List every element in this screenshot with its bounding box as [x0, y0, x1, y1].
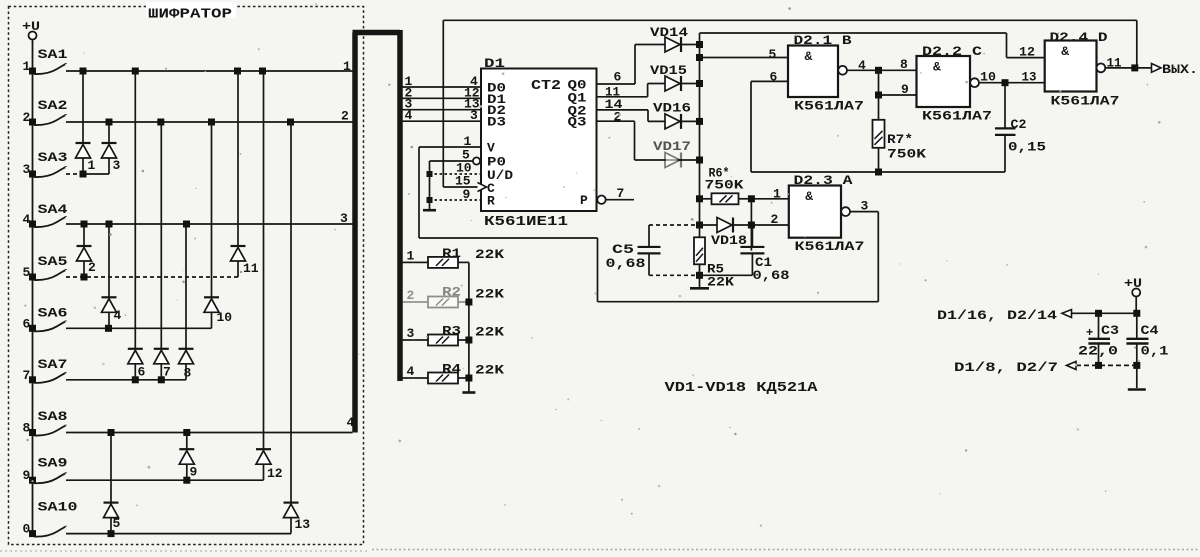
diode 3: [102, 122, 121, 174]
wire row 2 (line 2): [66, 109, 353, 126]
svg-text:22K: 22K: [475, 363, 504, 378]
diode 8: [179, 224, 194, 381]
svg-text:1: 1: [773, 187, 781, 202]
svg-text:1: 1: [88, 158, 96, 173]
+U supply terminal (right): [1124, 276, 1142, 297]
wire Q2 to VD16: [597, 97, 649, 121]
svg-text:1: 1: [23, 59, 31, 74]
svg-text:К561ЛА7: К561ЛА7: [794, 99, 864, 114]
svg-text:9: 9: [23, 468, 31, 483]
svg-text:9: 9: [901, 82, 909, 97]
gate D2.1 output pin 4: [838, 58, 882, 75]
svg-text:R: R: [487, 194, 495, 209]
svg-text:22K: 22K: [707, 275, 734, 290]
svg-text:&: &: [805, 49, 813, 64]
svg-text:6: 6: [138, 365, 146, 380]
svg-text:SA6: SA6: [38, 306, 68, 321]
svg-text:&: &: [805, 189, 813, 204]
svg-text:9: 9: [190, 465, 198, 480]
encoder block dashed border: [9, 2, 364, 545]
svg-text:2: 2: [407, 288, 415, 303]
svg-text:VD1-VD18 КД521А: VD1-VD18 КД521А: [665, 381, 819, 396]
svg-text:6: 6: [614, 70, 622, 85]
wire Q0 to VD14: [597, 45, 636, 85]
resistor R6* 750K: [700, 166, 752, 205]
diode 2: [77, 224, 97, 277]
svg-text:D2.4 D: D2.4 D: [1050, 30, 1108, 45]
pin 10 U/D wire: [427, 161, 482, 178]
pin 2 wire D2.3: [751, 212, 788, 227]
switch SA2: [23, 98, 68, 126]
svg-text:6: 6: [23, 316, 31, 331]
svg-text:6: 6: [770, 70, 778, 85]
wire Q1 to VD15: [597, 84, 648, 100]
svg-text:11: 11: [243, 261, 259, 276]
svg-text:3: 3: [23, 162, 31, 177]
pin 15 C wire: [443, 174, 486, 192]
svg-text:4: 4: [858, 58, 866, 73]
svg-text:11: 11: [1107, 56, 1122, 71]
svg-text:5: 5: [113, 516, 121, 531]
svg-text:SA7: SA7: [38, 357, 68, 372]
capacitor C1 0,68: [700, 225, 790, 283]
op-amp U4 gate D2.2 body: [917, 44, 983, 107]
resistor R1 22K: [402, 246, 504, 268]
svg-text:V: V: [487, 141, 495, 156]
capacitor C5 0,68: [606, 225, 661, 275]
svg-text:0,68: 0,68: [753, 268, 790, 283]
wire common cathode node: [696, 33, 1007, 229]
svg-text:R1: R1: [442, 246, 461, 261]
svg-text:VD16: VD16: [653, 101, 691, 116]
switch SA7: [23, 357, 68, 383]
svg-text:8: 8: [900, 57, 908, 72]
diode 6: [128, 71, 146, 380]
svg-text:2: 2: [88, 260, 96, 275]
diode 1: [76, 71, 96, 174]
svg-text:22K: 22K: [475, 325, 504, 340]
resistor R5 22K: [694, 225, 734, 290]
wire D2.3 output to D1 pin V: [419, 147, 878, 302]
wire bundle to D1 data inputs: [402, 74, 481, 123]
svg-text:Q3: Q3: [568, 115, 587, 130]
wire C5 dashed links: [649, 225, 700, 275]
capacitor C4 0,1: [1126, 313, 1168, 365]
svg-text:750K: 750K: [887, 147, 926, 162]
wire row 3: [66, 171, 109, 178]
diode 11: [231, 71, 259, 277]
svg-text:D2.2 C: D2.2 C: [922, 44, 982, 59]
svg-text:3: 3: [340, 211, 348, 226]
pin 9 R wire: [427, 187, 482, 203]
bundle cable (thick bus): [353, 30, 401, 433]
gate D2.4 output pin 11: [1097, 56, 1139, 73]
svg-text:0,15: 0,15: [1008, 140, 1046, 155]
diode 5: [104, 433, 121, 534]
svg-text:9: 9: [463, 187, 471, 202]
svg-text:13: 13: [1022, 70, 1037, 85]
svg-text:R4: R4: [442, 362, 461, 377]
gate D2.2 output pin 10: [970, 70, 1008, 88]
wire to D2.2 pin 9: [875, 70, 917, 119]
switch SA3: [23, 150, 68, 178]
ground for P0/UD/R pins: [423, 161, 436, 210]
op-amp U5 gate D2.4 body: [1045, 30, 1108, 92]
capacitor C3 22,0 (polar): [1078, 313, 1119, 365]
resistor R2 22K: [402, 285, 504, 308]
svg-text:К561ЛА7: К561ЛА7: [1051, 94, 1120, 109]
svg-text:CT2: CT2: [531, 79, 561, 94]
pin 5 P0 wire: [430, 148, 481, 165]
diode 12: [256, 71, 283, 481]
svg-text:ВЫХ.: ВЫХ.: [1162, 62, 1198, 77]
wire +U to node: [1133, 297, 1140, 317]
diode 9: [179, 433, 197, 481]
gate D2.4 type К561ЛА7: [1051, 94, 1120, 109]
wire R1-R4 common to ground: [462, 262, 475, 392]
arrow to D1/16 D2/14: [937, 308, 1137, 323]
diode 7: [154, 122, 171, 380]
wire row 1 (line 1): [66, 59, 353, 75]
arrow to D1/8 D2/7: [954, 360, 1140, 375]
svg-text:3: 3: [407, 326, 415, 341]
switch SA10: [23, 500, 78, 538]
op-amp U2 gate D2.3 body: [789, 173, 853, 238]
op-amp U3 gate D2.1 body: [788, 33, 852, 97]
svg-text:SA4: SA4: [38, 202, 68, 217]
svg-text:22K: 22K: [475, 247, 504, 262]
+U supply terminal (encoder): [22, 19, 40, 40]
svg-text:VD15: VD15: [650, 63, 687, 78]
capacitor C2 0,15: [995, 83, 1046, 172]
svg-text:22K: 22K: [475, 287, 504, 302]
svg-text:C4: C4: [1141, 323, 1159, 338]
svg-text:VD18: VD18: [711, 233, 747, 248]
svg-text:1: 1: [407, 248, 415, 263]
svg-text:0,68: 0,68: [606, 256, 646, 271]
wire to D2.2 pin 8: [879, 57, 917, 72]
svg-text:SA2: SA2: [38, 98, 68, 113]
node D2.3 input: [748, 195, 789, 250]
wire clock feedback (output to D1 C input): [443, 20, 1137, 187]
svg-text:7: 7: [23, 368, 31, 383]
resistor R7* 750K: [873, 120, 927, 176]
svg-text:8: 8: [23, 421, 31, 436]
wire row 8 (line 4): [66, 415, 355, 436]
switch SA8: [23, 409, 68, 436]
gate D2.1 type К561ЛА7: [794, 99, 864, 114]
svg-text:22,0: 22,0: [1078, 344, 1118, 359]
wire feedback line (R7/C2 to D2.1 pin6): [751, 171, 1005, 173]
svg-text:&: &: [1061, 44, 1069, 59]
svg-text:3: 3: [113, 158, 121, 173]
svg-text:D1: D1: [484, 56, 505, 71]
svg-text:SA3: SA3: [38, 150, 68, 165]
svg-text:0: 0: [23, 522, 31, 537]
pin 1 V wire: [419, 134, 481, 149]
svg-text:К561ЛА7: К561ЛА7: [795, 239, 865, 254]
svg-text:SA10: SA10: [38, 500, 78, 515]
svg-text:SA5: SA5: [38, 254, 68, 269]
wire Q3 to VD17: [597, 110, 635, 161]
svg-text:4: 4: [23, 212, 31, 227]
svg-text:1: 1: [343, 59, 351, 74]
encoder title ШИФРАТОР: [148, 8, 232, 23]
ground below R5: [690, 275, 709, 288]
svg-text:D2.3 A: D2.3 A: [794, 173, 853, 188]
wire to D2.1 pin 6: [751, 70, 788, 173]
IC D1 type label К561ИЕ11: [484, 214, 568, 230]
svg-text:К561ИЕ11: К561ИЕ11: [484, 214, 568, 230]
svg-text:&: &: [933, 60, 941, 75]
diode VD17: [635, 139, 700, 168]
svg-text:3: 3: [470, 108, 478, 123]
svg-text:+: +: [1086, 326, 1093, 340]
wire row 4 (line 3): [66, 211, 353, 228]
op-amp U1 counter IC D1 body: [481, 56, 597, 211]
svg-text:12: 12: [267, 466, 283, 481]
wire row 9: [66, 477, 264, 484]
svg-text:5: 5: [769, 47, 777, 62]
svg-text:2: 2: [23, 110, 31, 125]
svg-text:5: 5: [23, 265, 31, 280]
svg-text:3: 3: [861, 199, 869, 214]
svg-text:4: 4: [405, 108, 413, 123]
wire to D2.4 pin 13: [1005, 70, 1045, 85]
svg-text:SA9: SA9: [38, 456, 68, 471]
svg-text:10: 10: [217, 310, 233, 325]
pin 1 wire D2.3: [773, 187, 781, 202]
svg-text:R7*: R7*: [887, 132, 913, 147]
ground below C4: [1128, 365, 1146, 389]
svg-text:2: 2: [614, 110, 622, 125]
diode VD14: [635, 25, 700, 52]
svg-text:R2: R2: [442, 285, 461, 300]
svg-text:0,1: 0,1: [1141, 344, 1169, 359]
switch SA1: [23, 47, 68, 75]
svg-text:13: 13: [295, 517, 311, 532]
diode VD15: [648, 63, 700, 91]
switch SA5: [23, 254, 68, 281]
diode 13: [284, 122, 311, 534]
switch SA4: [23, 202, 68, 228]
svg-text:4: 4: [407, 364, 415, 379]
wire +U rail: [32, 40, 34, 534]
svg-text:R3: R3: [442, 324, 461, 339]
resistor R3 22K: [402, 324, 504, 346]
svg-text:SA1: SA1: [38, 47, 68, 62]
svg-text:12: 12: [1019, 45, 1035, 60]
svg-text:ШИФРАТОР: ШИФРАТОР: [148, 8, 232, 23]
svg-text:D1/16, D2/14: D1/16, D2/14: [937, 308, 1057, 323]
diode VD18: [700, 218, 789, 249]
svg-text:2: 2: [771, 212, 779, 227]
gate D2.2 type К561ЛА7: [922, 109, 992, 124]
gate D2.3 type К561ЛА7: [795, 239, 865, 254]
diode VD16: [648, 101, 700, 129]
svg-text:P: P: [580, 193, 588, 208]
svg-text:D2.1 B: D2.1 B: [794, 33, 852, 48]
diode 4: [102, 224, 122, 328]
resistor R4 22K: [402, 362, 504, 384]
wire row 5: [66, 274, 238, 281]
svg-text:D3: D3: [487, 115, 506, 130]
svg-text:8: 8: [184, 366, 192, 381]
svg-text:К561ЛА7: К561ЛА7: [922, 109, 992, 124]
gate D2.3 output pin 3: [841, 199, 878, 217]
svg-text:2: 2: [341, 109, 349, 124]
svg-text:C5: C5: [612, 242, 634, 257]
switch SA6: [23, 306, 68, 332]
pin 7 P output: [597, 186, 634, 204]
svg-text:7: 7: [617, 186, 625, 201]
svg-text:D1/8, D2/7: D1/8, D2/7: [954, 360, 1058, 375]
svg-text:SA8: SA8: [38, 409, 68, 424]
wire row 10: [66, 530, 291, 537]
svg-text:VD14: VD14: [650, 25, 688, 40]
svg-text:10: 10: [980, 70, 996, 85]
wire to D2.1 pin 5: [700, 47, 789, 62]
output arrow ВЫХ.: [1135, 62, 1198, 77]
wire row 6: [66, 325, 212, 332]
scan artifact bottom edge streak: [0, 550, 1198, 552]
switch SA9: [23, 456, 68, 484]
svg-text:7: 7: [163, 365, 171, 380]
caption VD1-VD18 КД521А: [665, 381, 819, 396]
svg-text:4: 4: [114, 308, 122, 323]
svg-text:C2: C2: [1011, 117, 1027, 132]
svg-text:750K: 750K: [705, 178, 744, 193]
svg-text:VD17: VD17: [653, 139, 691, 154]
diode 10: [204, 122, 232, 328]
wire to D2.4 pin 12: [1007, 45, 1045, 60]
svg-text:C3: C3: [1101, 323, 1119, 338]
wire row 7: [66, 376, 186, 383]
